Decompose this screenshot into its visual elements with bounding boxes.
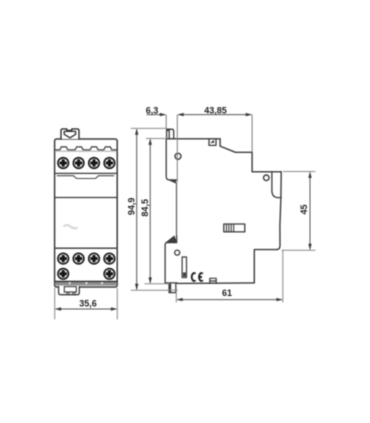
arrow 6,3 left: [160, 113, 166, 116]
dim 35,6 line: [56, 308, 116, 310]
tab inner shield: [64, 131, 75, 137]
svg-text:35,6: 35,6: [79, 298, 97, 308]
CE letter C: [192, 273, 196, 281]
dimension arrowheads: [55, 113, 312, 311]
dim 6,3 line: [147, 114, 166, 116]
top rail notch box: [209, 139, 216, 146]
arrow 84,5 top: [149, 139, 152, 145]
screw B1: [57, 253, 69, 265]
screw T4: [103, 157, 115, 169]
arrow 35,6 left: [55, 307, 61, 310]
clip inner feet: [67, 292, 75, 294]
top notched band line: [55, 147, 116, 150]
upper block corner wedge: [168, 180, 176, 184]
screw T1: [57, 157, 69, 169]
top edge step and slant: [220, 139, 281, 172]
top mounting tab (front view): [61, 129, 79, 139]
dim 45 line: [309, 173, 311, 250]
arrow 61 right: [276, 298, 282, 301]
arrow 45 top: [308, 172, 311, 178]
bottom rail band: [55, 282, 117, 286]
dim 45 extension bottom: [282, 249, 316, 251]
side top hook: [167, 129, 174, 139]
svg-text:94,9: 94,9: [126, 198, 136, 216]
upper front block: [166, 139, 176, 180]
rear upper tab groove: [272, 172, 281, 198]
arrow 43,85 right: [246, 113, 252, 116]
hook notch block: [167, 129, 169, 131]
toggle switch: [224, 224, 245, 232]
dim 84,5 extension bottom: [145, 283, 171, 285]
dim 45 extension top: [283, 171, 316, 173]
terminal screws top row: [57, 157, 115, 169]
dim 43,85 line: [178, 114, 251, 116]
band notch 2: [85, 282, 88, 284]
rear edge: [277, 172, 282, 250]
side profile top edge: [166, 138, 220, 140]
screw B2: [73, 253, 85, 265]
dim 6,3 extension lines: [165, 115, 167, 129]
recessed middle edge: [176, 183, 178, 236]
arrow 61 left: [176, 298, 182, 301]
upper circle detail: [175, 153, 181, 159]
screw B5: [57, 268, 69, 280]
dim 61 extension left: [175, 286, 177, 303]
label slot dark fill: [183, 272, 186, 276]
dim 35,6 extension left: [54, 288, 56, 319]
svg-text:45: 45: [299, 204, 309, 214]
line under top screws: [55, 172, 118, 174]
mid separation line upper: [55, 197, 118, 199]
lower block top edge: [166, 236, 176, 243]
arrow 84,5 bottom: [149, 277, 152, 283]
arrow 43,85 left: [177, 113, 183, 116]
arrow 35,6 right: [111, 307, 117, 310]
band notch 3: [101, 282, 104, 284]
svg-text:6,3: 6,3: [146, 105, 159, 115]
dim 94,9 line: [136, 130, 138, 290]
mid separation line lower: [55, 247, 118, 249]
screw B4: [103, 253, 115, 265]
bottom rear step: [254, 250, 276, 283]
lower block corner wedge: [166, 236, 176, 242]
band shadow line: [55, 150, 116, 152]
toggle hatch: [226, 224, 233, 232]
foot tab dark bar: [169, 283, 172, 292]
screw B6: [103, 268, 115, 280]
clip inner rectangle: [64, 287, 76, 292]
screw T2: [73, 157, 85, 169]
arrow 94,9 top: [135, 128, 138, 134]
dim 43,85 extension line right: [251, 115, 253, 152]
dim 84,5 extension top: [146, 138, 167, 140]
front view body outline: [55, 139, 118, 287]
dim 94,9 extension bottom: [131, 289, 178, 291]
bottom edge: [177, 282, 254, 285]
dim 61 line: [177, 299, 281, 301]
dim 61 extension right: [282, 251, 284, 303]
lower front block left edge: [165, 243, 177, 283]
screw T3: [88, 157, 100, 169]
screw B3: [88, 253, 100, 265]
dim 35,6 extension right: [116, 288, 118, 319]
terminal cover lip: [57, 176, 114, 179]
rear circle detail: [264, 175, 270, 181]
lower circle detail: [175, 250, 180, 255]
bottom DIN clip (front view): [59, 286, 80, 295]
dim 94,9 extension top: [131, 127, 167, 129]
svg-text:61: 61: [222, 288, 232, 298]
svg-text:84,5: 84,5: [140, 199, 150, 217]
faint label mark: [64, 225, 78, 228]
svg-text:43,85: 43,85: [204, 105, 227, 115]
arrow 94,9 bottom: [135, 284, 138, 290]
label slot: [182, 257, 186, 278]
arrow 45 bottom: [308, 244, 311, 250]
CE marking: [192, 273, 203, 281]
dim 84,5 line: [149, 140, 151, 283]
band notch 1: [68, 282, 71, 284]
terminal screws bottom rows: [57, 253, 115, 280]
foot tab: [169, 283, 176, 292]
bottom clip bump: [210, 278, 216, 283]
notch inner mark: [210, 140, 214, 143]
CE letter E: [199, 273, 203, 281]
